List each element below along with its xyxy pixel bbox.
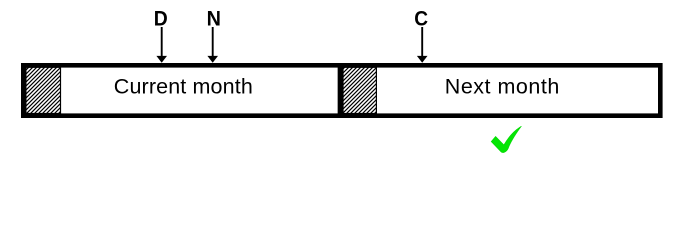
- svg-text:Next month: Next month: [445, 75, 560, 99]
- arrow N: [207, 27, 218, 63]
- green checkmark: [491, 126, 521, 152]
- hatched segment 2 (start of next month): [343, 67, 376, 113]
- svg-text:C: C: [414, 7, 428, 31]
- svg-text:N: N: [207, 7, 221, 31]
- arrow C: [417, 27, 428, 63]
- svg-text:Current month: Current month: [114, 75, 253, 99]
- svg-text:D: D: [154, 7, 168, 31]
- month divider: [338, 63, 343, 118]
- arrow D: [156, 27, 167, 63]
- timeline bar outer rectangle: [23, 65, 660, 115]
- hatched segment 1 (start of current month): [26, 67, 61, 113]
